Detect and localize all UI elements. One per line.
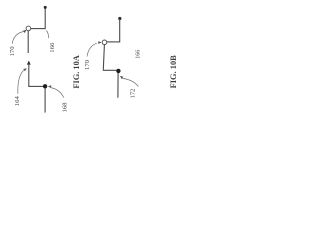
leader arrow to circle from label 170 FIG10B	[87, 43, 97, 56]
wire vertical upper FIG10A top	[44, 7, 46, 28]
svg-text:172: 172	[130, 88, 137, 98]
leader from corner to label 166 FIG10A	[46, 30, 48, 38]
wire vertical lower FIG10A bottom	[44, 88, 46, 113]
svg-text:170: 170	[9, 46, 16, 57]
node dot top terminal FIG10A	[44, 6, 47, 9]
wire horizontal lower FIG10B	[103, 69, 117, 71]
leader arrow to wire from label 172	[123, 78, 139, 86]
wire vertical lower FIG10B	[117, 73, 119, 98]
node dot top terminal FIG10B	[118, 17, 121, 20]
wire horizontal FIG10A top	[31, 28, 46, 30]
node filled dot junction 172 FIG10B	[116, 69, 120, 73]
node open circle junction 170 FIG10A	[26, 26, 31, 31]
svg-text:170: 170	[84, 59, 91, 70]
wire vertical left FIG10A bottom	[28, 64, 30, 87]
svg-text:166: 166	[49, 42, 56, 53]
leader arrow to wire from label 164	[18, 70, 24, 94]
wire horizontal upper FIG10B	[107, 41, 120, 43]
wire vertical below circle FIG10A	[27, 31, 29, 53]
svg-text:FIG. 10B: FIG. 10B	[169, 55, 178, 88]
arrowhead up terminal FIG10A bottom	[27, 61, 31, 65]
svg-text:FIG. 10A: FIG. 10A	[72, 55, 81, 89]
wire horizontal FIG10A bottom	[28, 85, 44, 87]
svg-text:164: 164	[14, 96, 21, 107]
svg-text:168: 168	[62, 102, 69, 113]
wire vertical mid FIG10B	[103, 45, 104, 70]
svg-text:166: 166	[135, 50, 141, 59]
node filled dot junction 168 FIG10A	[43, 84, 47, 88]
wire vertical upper FIG10B	[119, 19, 121, 42]
leader arrow to circle from label 170	[12, 32, 23, 44]
leader arrow to dot from label 168	[51, 88, 64, 98]
node open circle junction 170 FIG10B	[102, 40, 107, 45]
